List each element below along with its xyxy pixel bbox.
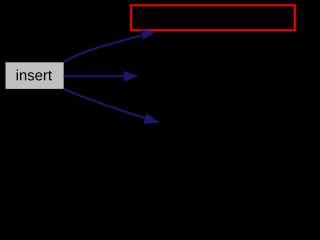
wire: edge insert to middle node bbox=[64, 75, 125, 77]
node insert bbox=[6, 62, 64, 89]
wire: edge insert to bottom node bbox=[64, 89, 147, 119]
arrowhead: edge insert to top node bbox=[141, 30, 156, 40]
arrowhead: edge insert to middle node bbox=[124, 71, 138, 82]
arrowhead: edge insert to bottom node bbox=[143, 113, 159, 123]
node: truncated red box (top right) bbox=[131, 5, 295, 30]
wire: edge insert to top node bbox=[64, 35, 143, 62]
